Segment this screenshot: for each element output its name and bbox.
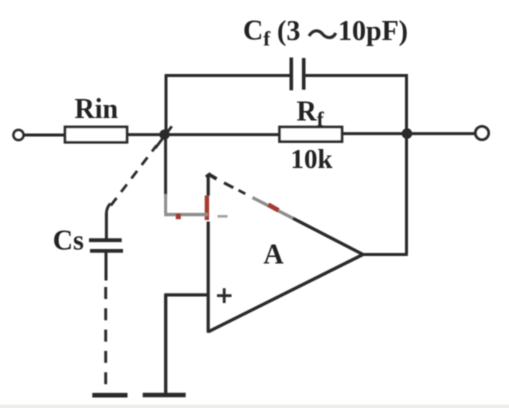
wire Rin to Rf box (through node)	[127, 133, 281, 136]
wire inverting input: faded vertical in band	[164, 194, 167, 213]
plus sign (non-inverting input)	[217, 288, 232, 303]
top edge red artifact	[268, 205, 278, 211]
left edge lower segment	[207, 222, 210, 333]
top edge solid segment to tip	[293, 218, 363, 254]
wire Rf to output terminal (through junction)	[342, 132, 475, 135]
svg-text:10k: 10k	[291, 144, 333, 174]
capacitor Cs	[89, 238, 122, 242]
slash through node (dash)	[155, 126, 172, 148]
svg-text:Cs: Cs	[53, 226, 84, 257]
faint scan edge at bottom	[0, 405, 509, 408]
wire top horizontal right of Cf	[304, 74, 408, 77]
wire (dashed) node to Cs	[111, 146, 157, 206]
resistor Rin	[65, 127, 127, 142]
top edge dashed near corner	[209, 174, 217, 179]
node junction	[159, 129, 169, 139]
ground (left)	[92, 393, 127, 398]
output terminal	[475, 126, 488, 139]
svg-text:A: A	[263, 240, 284, 271]
wire inverting input: faded horizontal to op-amp	[164, 213, 208, 216]
wire (dashed) Cs to ground	[104, 287, 107, 385]
minus sign faded (inverting input)	[218, 215, 228, 218]
wire node up to Cf line	[165, 76, 168, 134]
wire non-inverting down to ground	[164, 295, 167, 394]
junction output node	[402, 128, 413, 139]
left edge faded red segment (scan artifact)	[205, 196, 209, 221]
hypotenuse (bottom edge)	[208, 255, 363, 332]
capacitor Cf	[289, 58, 293, 91]
svg-text:10pF): 10pF)	[338, 16, 408, 47]
input terminal	[14, 130, 24, 140]
wire op-amp output to right column	[362, 253, 408, 256]
wire non-inverting input horizontal	[164, 293, 208, 296]
resistor Rf	[280, 127, 343, 142]
wire right vertical (feedback column)	[405, 74, 408, 255]
top edge faded gray segment	[253, 198, 295, 219]
wire top horizontal left of Cf	[165, 74, 292, 77]
left edge upper segment	[207, 174, 210, 196]
red artifact on inverting wire	[176, 214, 181, 220]
wire Cs top connection	[105, 213, 108, 240]
svg-text:Rin: Rin	[75, 94, 119, 125]
ground (right)	[143, 393, 186, 398]
wire Cs bottom solid stub	[105, 251, 108, 281]
wire inverting input: vertical from node	[164, 139, 167, 195]
op-amp U1 (A)	[206, 174, 363, 333]
svg-text:(3: (3	[277, 16, 300, 47]
wire input to Rin	[24, 134, 66, 137]
